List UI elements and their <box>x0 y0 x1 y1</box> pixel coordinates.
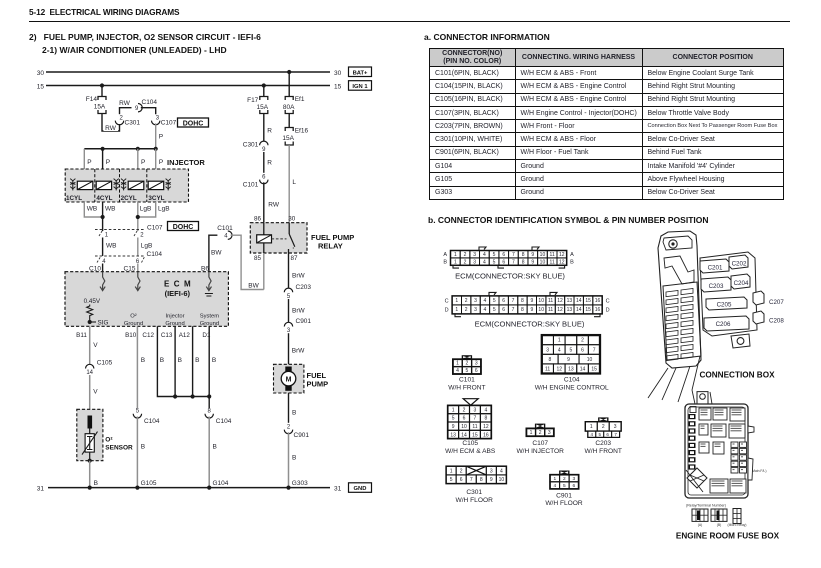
svg-text:C205: C205 <box>717 302 732 309</box>
svg-text:7: 7 <box>593 347 596 353</box>
svg-text:C207: C207 <box>769 299 784 306</box>
svg-text:2: 2 <box>464 259 467 265</box>
svg-text:5: 5 <box>570 347 573 353</box>
wire WB to C104 <box>103 238 117 257</box>
wire BW to relay 85 <box>231 235 264 289</box>
fuse F14 15A <box>86 96 106 114</box>
svg-text:9: 9 <box>530 298 533 304</box>
connector C301 pictogram <box>446 466 506 483</box>
svg-text:(A): (A) <box>698 523 703 527</box>
svg-text:C: C <box>606 298 610 304</box>
pin 30 <box>288 215 296 222</box>
injector 4CYL <box>96 179 119 202</box>
svg-text:8: 8 <box>480 477 483 483</box>
svg-text:1: 1 <box>452 407 455 413</box>
svg-text:6: 6 <box>502 298 505 304</box>
svg-text:(B): (B) <box>717 523 722 527</box>
node ground mesh D1 <box>207 394 211 398</box>
injector assembly box <box>65 169 188 202</box>
bus 31 GND <box>37 485 342 492</box>
relay switch <box>289 223 295 253</box>
wire C10 into ECM <box>89 264 103 273</box>
svg-text:1: 1 <box>455 307 458 313</box>
connector C901 pictogram <box>550 471 579 490</box>
svg-text:6: 6 <box>502 252 505 258</box>
connector C104 pins 4,6 <box>95 251 162 265</box>
wire B to G303 <box>289 432 297 487</box>
relay coil <box>257 223 272 253</box>
svg-text:C203: C203 <box>709 283 724 290</box>
O2 sensor box <box>77 409 103 460</box>
svg-text:3: 3 <box>573 476 576 482</box>
svg-text:14: 14 <box>576 298 582 304</box>
svg-text:10: 10 <box>461 424 467 430</box>
svg-text:4: 4 <box>483 252 486 258</box>
svg-text:3: 3 <box>490 468 493 474</box>
wire R to C301 <box>264 114 273 142</box>
connector C107 pictogram <box>526 424 553 437</box>
connector C104 pictogram <box>542 335 600 373</box>
wire BrW to fuel pump <box>289 333 306 364</box>
svg-text:D: D <box>606 307 610 313</box>
wire P to 4CYL <box>103 149 111 169</box>
wire C301 to C104 (RW) <box>119 100 131 108</box>
svg-text:4: 4 <box>484 407 487 413</box>
connector C104 pin 8 <box>205 409 232 425</box>
node injector bus 4CYL <box>101 147 105 151</box>
svg-text:5: 5 <box>450 477 453 483</box>
svg-text:12: 12 <box>557 307 563 313</box>
svg-text:12: 12 <box>559 259 565 265</box>
svg-text:1: 1 <box>450 468 453 474</box>
svg-text:C204: C204 <box>734 280 749 287</box>
label C901 W/H FLOOR <box>545 492 583 507</box>
svg-text:C: C <box>445 298 449 304</box>
relay coil-switch link <box>272 238 287 240</box>
ECM internal pin C10 <box>100 272 105 291</box>
wire 3CYL LgB <box>138 202 170 217</box>
svg-text:16: 16 <box>595 307 601 313</box>
ECM internal pin B6 ground <box>205 272 213 296</box>
svg-text:7: 7 <box>470 477 473 483</box>
label C107 W/H INJECTOR <box>516 440 564 455</box>
svg-text:2: 2 <box>563 476 566 482</box>
svg-text:ECM(CONNECTOR:SKY BLUE): ECM(CONNECTOR:SKY BLUE) <box>475 320 585 329</box>
connector C301 pin 9 <box>243 141 268 153</box>
node injector bus 3CYL <box>154 147 158 151</box>
label C301 W/H FLOOR <box>456 489 494 504</box>
connector C107 pins 1,2 <box>95 225 163 239</box>
svg-text:16: 16 <box>595 298 601 304</box>
svg-text:11: 11 <box>548 307 553 313</box>
wire 1CYL WB <box>84 202 102 217</box>
pin C12 <box>142 332 154 339</box>
svg-text:10: 10 <box>538 307 544 313</box>
injector feed bus <box>84 148 155 150</box>
connector C104 pin 9 <box>135 99 157 112</box>
connector C101 pin 4 <box>217 225 233 240</box>
svg-text:13: 13 <box>567 298 573 304</box>
node LgB join <box>136 215 140 219</box>
svg-text:4: 4 <box>484 307 487 313</box>
fuel pump box <box>274 364 304 393</box>
node WB join <box>101 215 105 219</box>
svg-text:11: 11 <box>550 252 555 258</box>
pin A12 <box>179 332 191 339</box>
ECM pin label O2 Ground <box>124 314 143 328</box>
svg-text:11: 11 <box>545 367 550 373</box>
svg-text:3: 3 <box>474 407 477 413</box>
svg-text:C206: C206 <box>716 321 731 328</box>
fuse F17 15A <box>247 97 270 114</box>
node SIG <box>88 320 109 327</box>
wire B6 BW <box>201 235 222 272</box>
svg-text:A: A <box>443 252 447 258</box>
wire LgB to C104 <box>138 238 153 257</box>
pin 86 <box>254 215 262 222</box>
bus 30 BAT+ <box>37 70 342 77</box>
svg-text:C202: C202 <box>732 261 747 268</box>
svg-text:7: 7 <box>512 259 515 265</box>
label C105 W/H ECM & ABS <box>445 440 496 455</box>
svg-text:1: 1 <box>558 338 561 344</box>
label C104 W/H ENGINE CONTROL <box>535 377 609 392</box>
engine room fuse box drawing <box>685 390 766 527</box>
svg-text:6: 6 <box>502 307 505 313</box>
svg-text:15: 15 <box>585 307 591 313</box>
ECM connector C/D 16-pin <box>445 292 610 316</box>
label O2 SENSOR <box>105 437 133 452</box>
svg-text:4: 4 <box>483 259 486 265</box>
terminal BAT+ <box>349 67 372 77</box>
svg-text:9: 9 <box>490 477 493 483</box>
terminal IGN 1 <box>349 81 372 91</box>
node bus15/F14 <box>100 83 104 87</box>
svg-text:9: 9 <box>567 357 570 363</box>
svg-text:C301: C301 <box>466 489 482 496</box>
svg-text:12: 12 <box>483 424 489 430</box>
svg-text:4: 4 <box>484 298 487 304</box>
svg-text:9: 9 <box>531 259 534 265</box>
svg-text:13: 13 <box>568 367 574 373</box>
svg-text:15: 15 <box>591 367 597 373</box>
wire L to relay 30 <box>289 145 296 223</box>
wire C13 B <box>175 326 182 396</box>
wire B10 B <box>137 326 145 408</box>
svg-text:6: 6 <box>463 416 466 422</box>
wire to G105 <box>137 417 145 488</box>
svg-text:W/H ENGINE CONTROL: W/H ENGINE CONTROL <box>535 385 609 392</box>
pin B11 <box>76 332 87 339</box>
ECM (IEFI-6) module box <box>65 272 228 327</box>
svg-text:3: 3 <box>473 252 476 258</box>
svg-text:2: 2 <box>466 361 469 367</box>
svg-text:10: 10 <box>587 357 593 363</box>
wire B11 V <box>90 326 99 364</box>
svg-text:2: 2 <box>539 430 542 436</box>
svg-text:8: 8 <box>521 298 524 304</box>
connector C107 pin 3 <box>152 116 177 127</box>
pin 85 <box>254 255 262 262</box>
svg-text:CONNECTION BOX: CONNECTION BOX <box>699 371 775 380</box>
wire O2 to G (B) <box>90 461 98 488</box>
wire to G104 <box>209 417 217 488</box>
svg-text:1: 1 <box>455 298 458 304</box>
svg-text:9: 9 <box>530 307 533 313</box>
svg-text:6: 6 <box>581 347 584 353</box>
fuel pump relay box <box>250 223 307 253</box>
svg-text:3: 3 <box>474 307 477 313</box>
svg-text:1: 1 <box>456 361 459 367</box>
injector 3CYL <box>148 179 171 202</box>
ECM pin label System Ground <box>200 314 220 328</box>
wire C104 to C107 <box>141 108 156 115</box>
wire bus15 to F14 <box>101 86 103 97</box>
svg-text:W/H FLOOR: W/H FLOOR <box>456 497 494 504</box>
svg-text:2: 2 <box>465 307 468 313</box>
svg-text:C107: C107 <box>532 440 548 447</box>
svg-text:(Relay/Terminal Number): (Relay/Terminal Number) <box>686 504 726 508</box>
svg-text:7: 7 <box>512 252 515 258</box>
svg-text:W/H INJECTOR: W/H INJECTOR <box>516 448 564 455</box>
svg-text:3: 3 <box>473 259 476 265</box>
wire P to 3CYL <box>156 149 164 169</box>
connector C901 pin 3 <box>284 318 311 334</box>
svg-text:10: 10 <box>540 252 546 258</box>
svg-text:B: B <box>570 260 574 266</box>
svg-text:5: 5 <box>452 416 455 422</box>
svg-text:2: 2 <box>463 407 466 413</box>
wire R to C101 <box>264 152 273 173</box>
svg-text:5: 5 <box>493 307 496 313</box>
svg-text:B: B <box>443 260 447 266</box>
connector C901 pin 2 <box>284 424 309 439</box>
label C101 W/H FRONT <box>448 377 485 392</box>
svg-text:14: 14 <box>461 432 467 438</box>
svg-text:C208: C208 <box>769 318 784 325</box>
connector C203 pin 5 <box>284 284 311 300</box>
svg-text:5: 5 <box>466 368 469 374</box>
wire A12 B <box>193 326 200 396</box>
wire C107 to injector bus (P) <box>156 123 163 148</box>
label DOHC 2 <box>168 222 199 231</box>
wire BrW to C901 <box>289 299 306 323</box>
svg-text:5: 5 <box>493 259 496 265</box>
wire bus30 to Ef1 <box>288 72 290 97</box>
label DOHC <box>178 118 209 127</box>
wire P to 2CYL <box>138 149 146 169</box>
wire mesh down <box>208 397 210 409</box>
svg-text:8: 8 <box>484 416 487 422</box>
node G303 <box>286 480 308 490</box>
wire 2CYL LgB <box>138 202 152 231</box>
svg-text:1: 1 <box>590 424 593 430</box>
label C203 W/H FRONT <box>585 440 622 455</box>
wire B to C901 <box>289 393 297 423</box>
connector C104 pin 5 <box>133 409 160 425</box>
svg-text:6: 6 <box>460 477 463 483</box>
svg-text:7: 7 <box>474 416 477 422</box>
wire RW to relay 86 <box>264 182 280 222</box>
svg-text:6: 6 <box>573 483 576 489</box>
svg-text:1: 1 <box>530 430 533 436</box>
svg-text:C203: C203 <box>595 440 611 447</box>
label CONNECTION BOX <box>699 371 775 380</box>
node ground mesh A12 <box>191 394 195 398</box>
svg-text:9: 9 <box>452 424 455 430</box>
injector 2CYL <box>121 179 144 202</box>
svg-text:13: 13 <box>450 432 456 438</box>
svg-text:10: 10 <box>499 477 505 483</box>
svg-text:14: 14 <box>580 367 586 373</box>
svg-text:5: 5 <box>563 483 566 489</box>
svg-text:7: 7 <box>512 298 515 304</box>
svg-text:2: 2 <box>464 252 467 258</box>
svg-text:D: D <box>445 307 449 313</box>
svg-text:C901: C901 <box>556 492 572 499</box>
svg-text:9: 9 <box>531 252 534 258</box>
svg-text:10: 10 <box>540 259 546 265</box>
fuse Ef1 80A <box>282 96 305 114</box>
node bus15/F17 <box>262 83 266 87</box>
svg-text:W/H FRONT: W/H FRONT <box>585 448 622 455</box>
svg-text:A: A <box>570 252 574 258</box>
wire F14 to C301 (RW) <box>102 114 120 133</box>
node injector bus 2CYL <box>136 147 140 151</box>
pin C13 <box>161 332 173 339</box>
svg-text:12: 12 <box>557 298 563 304</box>
svg-text:8: 8 <box>521 307 524 313</box>
terminal GND <box>349 483 372 493</box>
svg-text:1: 1 <box>454 259 457 265</box>
svg-text:3: 3 <box>474 298 477 304</box>
label ECM connector C/D <box>475 320 585 329</box>
bus 15 IGN 1 <box>37 83 342 90</box>
svg-text:11: 11 <box>472 424 477 430</box>
wire C15 into ECM <box>124 264 138 273</box>
wire V to O2 sensor <box>90 375 99 409</box>
svg-text:5: 5 <box>493 252 496 258</box>
connector C203 pictogram <box>585 417 621 437</box>
pin D1 <box>202 332 211 339</box>
svg-text:(Micro Relay): (Micro Relay) <box>728 523 747 527</box>
svg-text:15: 15 <box>472 432 478 438</box>
ECM internal 0.45V resistor <box>84 298 101 322</box>
wire bus15 to F17 <box>263 86 265 97</box>
svg-text:2: 2 <box>465 298 468 304</box>
svg-text:15: 15 <box>585 298 591 304</box>
wire 4CYL WB <box>103 202 116 231</box>
svg-text:W/H FRONT: W/H FRONT <box>448 385 485 392</box>
wire 87 BrW <box>289 253 306 288</box>
connector C105 pictogram <box>448 399 492 439</box>
node O2 sensor ground <box>88 459 92 463</box>
injector 1CYL <box>66 179 93 202</box>
svg-text:2: 2 <box>581 338 584 344</box>
svg-text:4: 4 <box>500 468 503 474</box>
node bus30/Ef1 <box>287 70 291 74</box>
node G105 <box>135 480 157 490</box>
svg-text:2: 2 <box>460 468 463 474</box>
wire C12 B <box>157 326 209 396</box>
svg-text:W/H FLOOR: W/H FLOOR <box>545 500 583 507</box>
svg-text:8: 8 <box>522 252 525 258</box>
node ground B <box>88 486 92 490</box>
connection box drawing <box>648 231 784 402</box>
svg-text:3: 3 <box>548 430 551 436</box>
svg-text:14: 14 <box>576 307 582 313</box>
svg-text:8: 8 <box>549 357 552 363</box>
svg-text:1: 1 <box>553 476 556 482</box>
svg-text:12: 12 <box>559 252 565 258</box>
svg-text:6: 6 <box>475 368 478 374</box>
svg-text:C105: C105 <box>462 440 478 447</box>
svg-text:4: 4 <box>456 368 459 374</box>
svg-text:C101: C101 <box>459 377 475 384</box>
svg-text:3: 3 <box>475 361 478 367</box>
svg-text:C201: C201 <box>708 265 723 272</box>
svg-text:5: 5 <box>493 298 496 304</box>
svg-text:W/H ECM & ABS: W/H ECM & ABS <box>445 448 496 455</box>
svg-text:10: 10 <box>538 298 544 304</box>
node ground mesh C13 <box>173 394 177 398</box>
svg-text:C104: C104 <box>564 377 580 384</box>
svg-text:3: 3 <box>614 424 617 430</box>
svg-text:12: 12 <box>556 367 562 373</box>
label FUEL PUMP RELAY <box>311 233 354 251</box>
svg-text:4: 4 <box>553 483 556 489</box>
wire relay 85 down <box>263 253 265 290</box>
connector C101 pin 6 <box>243 174 268 188</box>
svg-text:13: 13 <box>567 307 573 313</box>
svg-text:11: 11 <box>548 298 553 304</box>
ECM connector A/B 12-pin <box>443 247 574 268</box>
fuse Ef16 15A <box>282 114 308 146</box>
ECM pin label Injector Ground <box>165 314 184 328</box>
label FUEL PUMP <box>307 371 329 389</box>
svg-text:ENGINE ROOM FUSE BOX: ENGINE ROOM FUSE BOX <box>676 532 780 541</box>
ECM internal pin C15 <box>135 272 140 291</box>
connector C101 pictogram <box>453 355 481 374</box>
svg-text:11: 11 <box>550 259 555 265</box>
svg-text:3: 3 <box>546 347 549 353</box>
label ENGINE ROOM FUSE BOX <box>676 532 780 541</box>
svg-text:16: 16 <box>483 432 489 438</box>
label ECM connector A/B <box>455 272 565 281</box>
svg-text:8: 8 <box>522 259 525 265</box>
svg-text:6: 6 <box>502 259 505 265</box>
svg-text:7: 7 <box>512 307 515 313</box>
svg-text:1: 1 <box>454 252 457 258</box>
pin 87 <box>291 255 299 262</box>
svg-text:ECM(CONNECTOR:SKY BLUE): ECM(CONNECTOR:SKY BLUE) <box>455 272 565 281</box>
connector C105 pin 14 <box>86 360 113 377</box>
pin B10 <box>125 332 137 339</box>
svg-text:4: 4 <box>558 347 561 353</box>
wire D1 B <box>209 326 216 396</box>
svg-text:(Main F/L): (Main F/L) <box>751 469 766 473</box>
node G104 <box>207 480 229 490</box>
wire P to 1CYL <box>84 149 91 169</box>
connector C301 pin 2 <box>115 108 140 127</box>
svg-text:2: 2 <box>602 424 605 430</box>
label INJECTOR <box>167 158 205 167</box>
